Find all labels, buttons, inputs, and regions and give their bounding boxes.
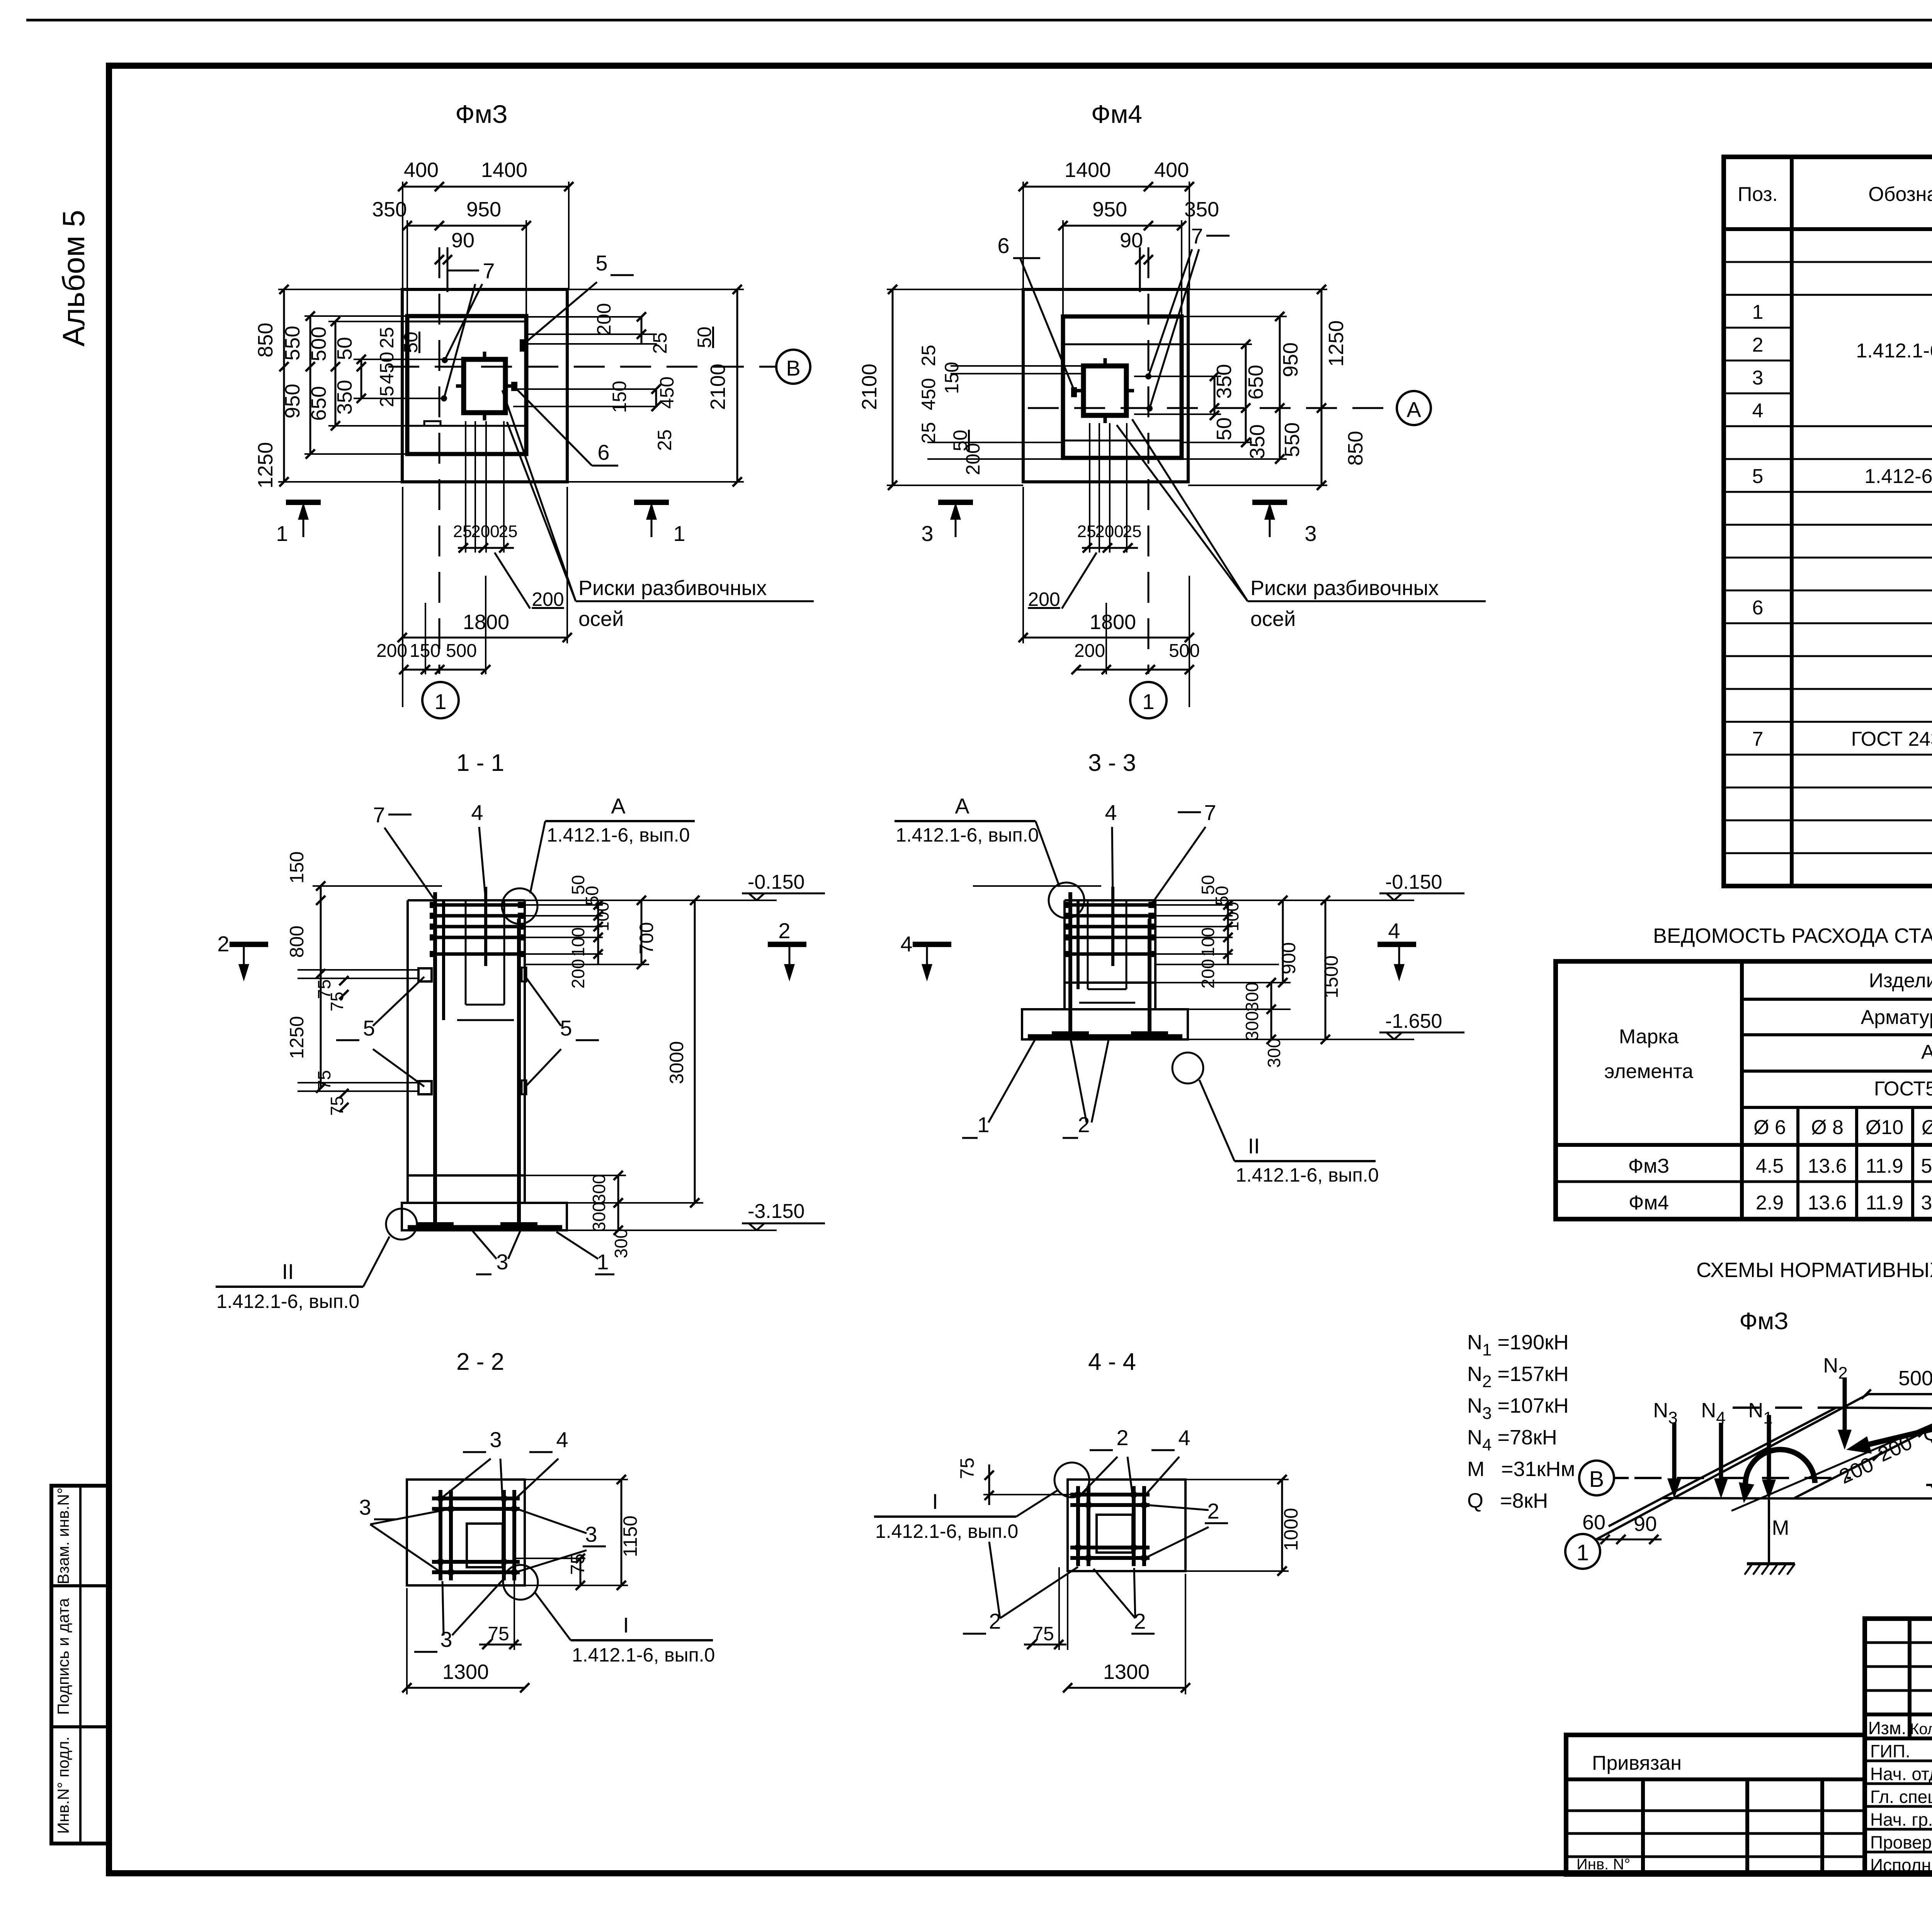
section 3-3 right small dims 50 50 100 100 200 [1198,875,1242,988]
scheme FmZ legend [1467,1331,1575,1512]
section 1-1 dims 300 300 [525,1171,703,1258]
svg-text:Поз.: Поз. [1738,183,1778,206]
section 1-1 dim 700 [636,896,657,969]
plan Fm4 vertical axis dashed [1148,247,1150,674]
svg-text:25: 25 [918,422,939,444]
scheme FmZ ground support [1745,1564,1795,1575]
svg-text:700: 700 [636,922,657,954]
svg-text:4: 4 [556,1427,568,1452]
section 2-2 cup square [467,1524,503,1567]
plan Fm4 horizontal axis dashed [1028,407,1396,409]
svg-text:400: 400 [1154,158,1189,182]
svg-text:4: 4 [1752,400,1764,422]
svg-text:А: А [1406,397,1421,422]
svg-text:200: 200 [532,588,564,610]
svg-text:6: 6 [597,440,609,464]
section 3-3 elevation -1.650 [1188,1010,1464,1039]
plan Fm4 title [1091,100,1142,128]
svg-text:ГОСТ5781-82*: ГОСТ5781-82* [1874,1078,1932,1100]
svg-text:А: А [955,794,969,818]
section 3-3 top mesh bars [1064,887,1155,989]
section 1-1 plate extension lines [298,970,418,1091]
svg-text:Нач. отд.: Нач. отд. [1870,1764,1932,1784]
svg-text:60: 60 [1582,1511,1605,1534]
plan FmZ left dim chain 500 650 [307,317,407,430]
section 4-4 dim 1000 [1185,1475,1302,1576]
svg-text:ГИП.: ГИП. [1870,1741,1910,1761]
svg-text:25: 25 [499,522,518,541]
svg-text:3: 3 [1304,521,1316,546]
section 3-3 dim 1500 [1320,896,1342,1044]
svg-text:Изм.: Изм. [1868,1718,1906,1738]
svg-text:100: 100 [1222,902,1242,932]
plan Fm4 right dim chain 1250 850 [1188,285,1367,490]
plan FmZ dim 25 200 25 [453,522,518,553]
svg-text:25: 25 [918,345,939,366]
section 2-2 dim 1300 [402,1588,529,1694]
svg-text:150: 150 [609,381,630,413]
scheme FmZ moment M [1739,1449,1815,1539]
plan FmZ right small dims [593,303,715,451]
svg-text:5: 5 [1752,465,1764,488]
plan Fm4 axis circle A [1397,391,1431,425]
plan Fm4 embedded angle piece [1071,387,1077,397]
svg-text:1.412.1-6, вып.0: 1.412.1-6, вып.0 [572,1644,715,1666]
svg-text:550: 550 [281,326,304,361]
svg-text:800: 800 [286,925,308,957]
plan FmZ corner angle piece [511,382,517,391]
plan Fm4 setting-out point marks [1145,373,1153,412]
svg-text:2: 2 [1116,1425,1128,1450]
section 1-1 left dims [286,851,349,1116]
section 1-1 leader 3 [471,1230,521,1274]
svg-text:Альбом 5: Альбом 5 [56,210,91,347]
svg-text:I: I [932,1489,938,1514]
svg-text:2.9: 2.9 [1756,1192,1784,1214]
svg-text:4: 4 [1388,918,1400,943]
scheme FmZ force Q [1846,1420,1932,1454]
svg-text:1.412.1-6, вып.0: 1.412.1-6, вып.0 [547,824,690,846]
section 4-4 dim 75 bottom [1024,1567,1068,1650]
svg-text:5: 5 [560,1016,572,1040]
svg-text:Взам. инв.N°: Взам. инв.N° [54,1488,72,1585]
svg-text:950: 950 [1279,342,1302,377]
plan FmZ outer square [402,289,567,482]
svg-text:13.6: 13.6 [1808,1155,1847,1177]
plan Fm4 left dims [918,345,1083,475]
plan Fm4 dim 1800 [1019,487,1194,643]
section 3-3 right bar extension lines [1155,905,1279,964]
svg-text:Фм4: Фм4 [1091,100,1142,128]
svg-text:1: 1 [673,521,685,546]
svg-text:2 - 2: 2 - 2 [456,1349,504,1375]
plan FmZ top dim 400 1400 [398,158,573,289]
svg-text:200: 200 [1028,588,1060,610]
svg-text:350: 350 [1213,364,1236,399]
scheme FmZ dims 200 200 [1836,1406,1932,1488]
scheme FmZ dims 60 90 [1582,1511,1662,1544]
section 2-2 dim 75 bottom [479,1580,522,1650]
section 4-4 leaders 2 bottom [963,1542,1078,1634]
plan FmZ dim 350 950 [372,198,531,316]
plan Fm4 right dim chain 350 50 [1134,364,1236,440]
svg-text:150: 150 [286,851,308,883]
section 3-3 elevation -0.150 [1155,871,1464,900]
svg-text:100: 100 [568,927,588,957]
title block change-log header text [1868,1718,1932,1738]
spec table header text [1738,168,1932,226]
svg-text:450: 450 [376,352,398,384]
section 1-1 floor level line [313,885,442,887]
svg-text:3: 3 [921,521,933,546]
svg-text:1800: 1800 [463,611,509,634]
svg-text:1250: 1250 [1325,320,1348,367]
plan FmZ axis circle B [776,350,810,384]
svg-text:2: 2 [217,932,229,956]
svg-text:400: 400 [404,158,439,182]
section 3-3 footing slab [1022,1009,1188,1039]
section 1-1 leader 5 right [526,977,599,1087]
svg-text:1400: 1400 [481,158,527,182]
svg-text:Риски разбивочных: Риски разбивочных [1250,577,1439,600]
plan FmZ vertical axis dashed [439,247,440,674]
svg-text:950: 950 [466,198,501,221]
section 3-3 title [1088,750,1136,776]
plan Fm4 dim 200 500 [1071,576,1200,707]
svg-text:200: 200 [962,443,984,475]
scheme FmZ axis circle 1 [1565,1394,1868,1569]
plan FmZ horizontal axis dashed [388,366,776,368]
svg-text:А: А [611,794,626,818]
svg-text:ВЕДОМОСТЬ РАСХОДА СТАЛИ НА: ВЕДОМОСТЬ РАСХОДА СТАЛИ НА ЭЛЕМЕНТ. кг [1653,924,1932,947]
svg-text:90: 90 [1634,1512,1657,1536]
svg-text:осей: осей [578,607,624,631]
svg-text:200: 200 [1198,959,1218,989]
svg-text:3: 3 [585,1522,597,1546]
svg-text:850: 850 [1344,431,1367,466]
svg-text:200: 200 [568,959,588,989]
svg-text:4: 4 [471,800,483,825]
section 4-4 cup square [1097,1515,1133,1553]
svg-text:300: 300 [1242,1011,1262,1041]
svg-text:200: 200 [1095,522,1123,541]
plan FmZ dim 1800 [398,487,572,643]
section 1-1 title [456,750,504,776]
plan Fm4 riska note [1117,419,1486,631]
plan FmZ right extension lines [513,317,657,406]
svg-text:3000: 3000 [666,1041,687,1084]
svg-text:СХЕМЫ НОРМАТИВНЫХ НАГРУЗОК: СХЕМЫ НОРМАТИВНЫХ НАГРУЗОК (без учета на… [1696,1259,1932,1282]
section 1-1 anchor bolts [417,892,537,1224]
section 1-1 right small dims 50 50 100 100 200 [568,875,612,988]
section 3-3 leader 4 [1105,800,1117,900]
Album 5 vertical label [56,210,91,347]
svg-text:1.412.1-6, вып.0: 1.412.1-6, вып.0 [896,824,1039,846]
svg-text:4.5: 4.5 [1756,1155,1784,1177]
svg-text:-1.650: -1.650 [1385,1010,1442,1032]
svg-text:7: 7 [373,803,385,827]
svg-text:2100: 2100 [858,364,881,410]
svg-text:37.0: 37.0 [1921,1192,1932,1214]
section 1-1 label A node [530,794,695,893]
svg-text:2100: 2100 [706,364,730,410]
svg-text:I: I [623,1613,629,1637]
svg-text:1 - 1: 1 - 1 [456,750,504,776]
svg-text:1.412.1-6, вып.0: 1.412.1-6, вып.0 [875,1520,1018,1542]
svg-text:350: 350 [333,380,356,415]
svg-text:25: 25 [1123,522,1142,541]
svg-text:3: 3 [359,1495,371,1519]
section 2-2 detail circle I [503,1565,538,1600]
plan Fm4 bolt projection lines [1090,423,1127,553]
section 1-1 pedestal outline [408,900,525,1203]
section 1-1 top mesh bars [430,887,524,1020]
svg-text:II: II [282,1259,294,1284]
section 4-4 detail circle I [1054,1463,1089,1497]
svg-text:Исполн.: Исполн. [1870,1855,1932,1875]
section 1-1 column cup walls [457,900,514,1020]
svg-text:350: 350 [1246,424,1269,459]
section 3-3 floor level line [973,885,1101,887]
svg-text:4: 4 [1178,1425,1190,1450]
svg-text:7: 7 [1752,728,1764,750]
section 3-3 leader 1 [962,1039,1036,1138]
svg-text:1: 1 [1142,689,1154,714]
left stamp label Inv N podl [54,1736,72,1834]
svg-text:2: 2 [1078,1112,1090,1137]
plan Fm4 leader 6 [997,233,1074,389]
svg-text:Марка: Марка [1619,1026,1679,1048]
plan FmZ dim 2100 [569,285,744,486]
svg-text:90: 90 [451,229,474,252]
svg-text:1000: 1000 [1280,1508,1302,1551]
plan FmZ setting-out point marks [441,357,448,401]
plan Fm4 leader 200 [1028,553,1097,610]
outer thin border top [26,19,1932,22]
svg-text:25: 25 [376,327,398,349]
svg-text:25: 25 [649,332,671,354]
section 1-1 node II label [216,1209,417,1312]
plan FmZ axis circle 1 [422,682,459,718]
plan FmZ slab [407,316,526,454]
svg-text:13.6: 13.6 [1808,1192,1847,1214]
plan Fm4 bolt offset line [1139,247,1141,292]
svg-text:5: 5 [363,1016,375,1040]
spec table row lines [1724,262,1932,853]
plan FmZ left dim chain 850 1250 [254,285,402,488]
svg-text:1.412-6. вып.2: 1.412-6. вып.2 [1864,465,1932,488]
svg-text:В: В [786,356,800,380]
svg-text:1.412.1-6, вып.0: 1.412.1-6, вып.0 [1236,1164,1379,1186]
svg-text:Q: Q [1923,1422,1932,1445]
scheme FmZ plane parallelogram [1609,1408,1932,1526]
section 1-1 elevation -0.150 [525,871,825,900]
plan FmZ section mark 1 left [276,502,321,546]
svg-text:2: 2 [1752,334,1764,356]
svg-text:Подпись и дата: Подпись и дата [54,1598,72,1715]
svg-text:элемента: элемента [1604,1060,1693,1083]
scheme FmZ elevation -0.150 [1926,1461,1932,1498]
plan FmZ riska note [502,390,814,631]
plan Fm4 dim 25 200 25 [1077,522,1142,553]
section 3-3 leader 7 [1151,800,1216,904]
svg-text:550: 550 [1281,422,1304,457]
svg-text:1: 1 [276,521,288,546]
section 3-3 dim 900 [1278,896,1299,987]
section 1-1 footing slab [402,1203,567,1230]
section 1-1 leader 5 left [336,977,424,1087]
plan Fm4 dim 90 [1120,229,1153,264]
section 3-3 anchor bolts [1052,892,1168,1033]
scheme FmZ axis circle B [1579,1461,1851,1495]
section 1-1 embedded plates [418,968,526,1094]
svg-text:650: 650 [1244,365,1267,400]
section 4-4 dim 75 left [956,1458,1078,1505]
svg-text:100: 100 [592,902,612,932]
svg-text:1250: 1250 [254,442,277,488]
spec table grid [1724,157,1932,886]
svg-text:2: 2 [1207,1499,1219,1523]
svg-text:Ø10: Ø10 [1866,1116,1903,1139]
svg-text:50: 50 [400,332,422,353]
svg-text:25: 25 [1077,522,1096,541]
plan Fm4 section mark 3 right [1252,502,1317,546]
scheme FmZ force N1 [1748,1399,1776,1564]
spec table body text [1752,235,1932,884]
svg-text:7: 7 [1191,224,1203,248]
svg-text:1300: 1300 [442,1660,489,1684]
svg-text:300: 300 [589,1174,609,1204]
plan FmZ left dim chain 550 950 [281,311,407,459]
svg-text:950: 950 [281,384,304,418]
section 2-2 leader 4 top [516,1427,568,1498]
svg-text:100: 100 [1198,927,1218,957]
scheme FmZ title [1739,1308,1788,1335]
plan FmZ bolt offset line [447,247,449,292]
plan FmZ inner small dims 25 450 25 50 [376,327,422,407]
svg-text:450: 450 [656,376,678,408]
svg-text:200: 200 [1074,641,1105,661]
svg-text:500: 500 [307,327,330,361]
steel table text [1604,969,1932,1214]
svg-text:300: 300 [589,1202,609,1232]
svg-text:3: 3 [490,1427,502,1452]
svg-text:90: 90 [1120,229,1143,252]
svg-text:11.9: 11.9 [1866,1155,1903,1177]
section 3-3 leader 2 [1063,1038,1109,1138]
left stamp label Vzam inv [54,1488,72,1585]
plan FmZ bolt projection lines [466,421,504,553]
section 1-1 right bar extension lines [525,905,649,964]
plan Fm4 axis circle 1 [1130,682,1167,718]
svg-text:75: 75 [567,1553,588,1575]
section 2-2 leader 3 right [517,1509,606,1572]
svg-text:5: 5 [595,251,607,275]
schemes title [1696,1259,1932,1282]
svg-text:1: 1 [597,1250,609,1274]
section 4-4 node I label [874,1489,1059,1542]
svg-text:1300: 1300 [1103,1660,1150,1684]
section 3-3 label A node [895,794,1060,887]
svg-text:3: 3 [440,1627,452,1651]
svg-text:Ø12: Ø12 [1922,1116,1932,1139]
svg-text:3: 3 [1752,367,1764,389]
section 1-1 leader 1 [556,1232,614,1274]
svg-text:850: 850 [254,323,277,357]
section 2-2 leaders 3 bottom [414,1580,502,1652]
svg-text:25: 25 [376,386,398,407]
plan Fm4 right dim chain 650 350 [1182,340,1269,459]
svg-text:4 - 4: 4 - 4 [1088,1349,1136,1375]
section 4-4 leader 4 top [1146,1425,1190,1495]
svg-text:650: 650 [307,386,330,421]
svg-text:25: 25 [453,522,472,541]
svg-text:900: 900 [1278,942,1299,974]
svg-text:300: 300 [1264,1038,1284,1068]
svg-text:350: 350 [372,198,407,221]
svg-text:7: 7 [483,259,495,283]
scheme FmZ force N3 [1653,1399,1681,1498]
section 4-4 slab outline [1068,1480,1185,1571]
svg-text:1.412.1-6. вып.2: 1.412.1-6. вып.2 [1856,340,1932,362]
svg-text:500: 500 [1898,1367,1932,1390]
scheme FmZ shear line of action [1731,1408,1932,1511]
svg-text:1150: 1150 [619,1515,641,1557]
svg-text:500: 500 [1169,641,1200,661]
svg-text:1800: 1800 [1090,611,1136,634]
title block change-log grid [1865,1619,1932,1874]
svg-text:3: 3 [496,1250,508,1274]
svg-text:1.412.1-6, вып.0: 1.412.1-6, вып.0 [216,1291,359,1312]
section 1-1 leader 7 [373,803,434,898]
section 2-2 title [456,1349,504,1375]
svg-text:1: 1 [1752,301,1764,323]
svg-text:1250: 1250 [286,1016,308,1059]
section 2-2 node I label [535,1593,715,1666]
svg-text:11.9: 11.9 [1866,1192,1903,1214]
svg-text:ФмЗ: ФмЗ [1739,1308,1788,1335]
svg-text:М: М [1772,1516,1789,1539]
plan FmZ left dim chain 50 350 [333,337,464,415]
svg-text:6: 6 [997,233,1009,258]
section 2-2 leader 3 left [359,1495,444,1571]
plan FmZ column cup [456,352,513,420]
section 2-2 dim 1150 [525,1475,641,1590]
section 4-4 title [1088,1349,1136,1375]
scheme FmZ dim 500 [1862,1367,1932,1399]
svg-text:4: 4 [1105,800,1117,825]
svg-text:Ø 8: Ø 8 [1811,1116,1844,1139]
svg-text:25: 25 [654,429,675,451]
svg-text:Нач. гр.: Нач. гр. [1870,1810,1932,1830]
steel table title [1653,924,1932,947]
svg-text:6: 6 [1752,597,1764,619]
svg-text:А-Ш: А-Ш [1921,1041,1932,1063]
svg-text:1: 1 [977,1112,989,1137]
svg-text:ГОСТ 24379.1-80: ГОСТ 24379.1-80 [1851,728,1932,750]
section 4-4 leaders 2 top [1082,1425,1132,1493]
section 1-1 mark 2 left [217,932,268,981]
svg-text:Арматура класса: Арматура класса [1861,1006,1932,1029]
section 1-1 detail circle A [502,888,537,924]
svg-text:ФмЗ: ФмЗ [455,100,507,128]
plan FmZ dim 90 [435,229,474,264]
svg-text:4: 4 [900,932,912,956]
svg-text:Ø 6: Ø 6 [1753,1116,1786,1139]
svg-text:Обозначение: Обозначение [1868,183,1932,206]
svg-text:1: 1 [1577,1540,1589,1565]
svg-text:-3.150: -3.150 [748,1200,804,1223]
